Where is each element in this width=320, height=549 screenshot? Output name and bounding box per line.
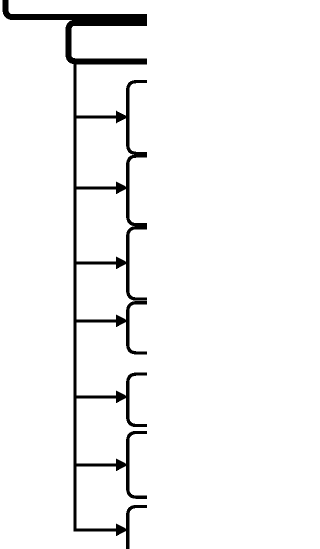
wire arrow 1 (75, 111, 128, 124)
wire arrow 4 (75, 315, 128, 328)
wire arrow 5 (75, 391, 128, 404)
root node (large rounded box, cropped at top and right) (6, 0, 171, 17)
wire arrow 6 (75, 459, 128, 472)
leaf node 3 (128, 228, 170, 299)
leaf node 7 (cropped at bottom) (128, 507, 170, 549)
leaf node 5 (128, 374, 170, 425)
leaf node 1 (rounded box, cropped at right) (128, 82, 170, 154)
leaf node 2 (128, 156, 170, 225)
leaf node 4 (128, 303, 170, 353)
leaf node 6 (128, 432, 170, 497)
trunk wire (vertical connector from node B down to last branch) (75, 64, 117, 530)
wire arrow 7 (fed by trunk elbow) (116, 524, 128, 537)
wire arrow 2 (75, 182, 128, 195)
wire arrow 3 (75, 257, 128, 270)
node B (second-level box, cropped at right) (69, 23, 171, 62)
